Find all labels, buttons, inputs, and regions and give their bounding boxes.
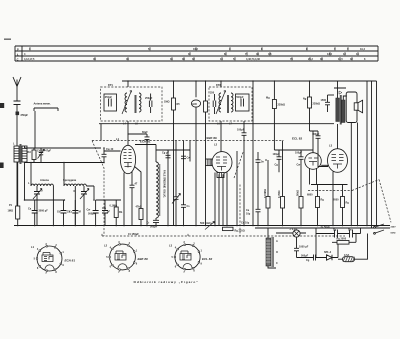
svg-text:Cg: Cg xyxy=(306,259,310,262)
capacitor C1 tuning gang xyxy=(33,186,42,226)
svg-text:7: 7 xyxy=(118,271,120,274)
resistor R6 xyxy=(204,81,208,226)
node row labels P L C xyxy=(17,47,19,61)
capacitor Cg1 xyxy=(162,152,171,158)
capacitor 1500 xyxy=(321,95,335,112)
filter FP2 xyxy=(209,83,252,121)
svg-text:Cs: Cs xyxy=(187,205,191,208)
speaker LS xyxy=(354,100,362,113)
capacitor Ca in antenna lead xyxy=(14,101,29,117)
node antena wewn. xyxy=(34,102,59,112)
capacitor 250pF FP1 left xyxy=(104,94,117,111)
svg-text:L3: L3 xyxy=(169,243,173,247)
wire bottom bus second xyxy=(255,227,390,229)
capacitor Cc xyxy=(69,200,81,226)
resistor Rb xyxy=(110,200,123,226)
wire chassis bottom bus xyxy=(14,225,390,227)
capacitor Cw xyxy=(87,200,99,226)
capacitor 250pF FP1 right xyxy=(145,94,153,114)
wire triode anode xyxy=(310,131,319,153)
svg-text:11,5: 11,5 xyxy=(338,58,343,61)
svg-text:Cn 10µ: Cn 10µ xyxy=(241,222,250,225)
scan mark top left xyxy=(4,39,11,40)
svg-text:Ct 150µF: Ct 150µF xyxy=(128,232,139,236)
potentiometer 500k volume xyxy=(200,221,215,229)
capacitor U1 grid xyxy=(102,148,121,163)
tube U1 ECH81 xyxy=(116,137,151,174)
svg-text:100pF: 100pF xyxy=(237,129,245,132)
resistor R5 1M xyxy=(164,81,180,226)
wire bottom-left node line xyxy=(25,199,122,201)
capacitor Ca2 xyxy=(28,200,48,226)
svg-text:Cd 50÷47pF: Cd 50÷47pF xyxy=(37,149,51,152)
svg-text:10µ: 10µ xyxy=(246,212,251,215)
svg-text:250: 250 xyxy=(210,92,215,95)
tube base L2 EBF89 xyxy=(104,241,148,274)
inductor FP1 secondary xyxy=(135,93,141,113)
dashed pot link vertical xyxy=(239,185,241,237)
svg-text:50kΩ: 50kΩ xyxy=(297,190,300,196)
svg-text:1MΩ: 1MΩ xyxy=(8,210,13,213)
capacitor 2x50uF pair xyxy=(316,226,361,238)
svg-text:9: 9 xyxy=(201,262,203,265)
tube bases xyxy=(31,241,212,284)
svg-text:SPŁ-2: SPŁ-2 xyxy=(324,251,332,254)
tube U3b ECL82 pentode xyxy=(328,144,348,173)
svg-text:Antena wewn.: Antena wewn. xyxy=(34,102,52,106)
capacitor 100pF coupling xyxy=(312,131,328,167)
inductor Lo oscillator coil xyxy=(135,145,190,219)
svg-text:Rb: Rb xyxy=(119,211,123,214)
svg-text:5n: 5n xyxy=(261,161,264,164)
svg-text:6: 6 xyxy=(175,266,177,269)
svg-text:220kΩ: 220kΩ xyxy=(313,103,321,106)
svg-text:Odbiornik radiowy „Figaro”: Odbiornik radiowy „Figaro” xyxy=(134,280,199,284)
svg-text:GłO: GłO xyxy=(192,103,197,106)
svg-text:500µF: 500µF xyxy=(301,255,309,258)
svg-text:6: 6 xyxy=(37,267,39,270)
scan mark left edge A xyxy=(0,103,4,108)
svg-text:FP2: FP2 xyxy=(216,83,221,87)
svg-text:8: 8 xyxy=(55,271,57,274)
svg-text:220V: 220V xyxy=(391,227,397,229)
svg-text:4,46,74,4,36: 4,46,74,4,36 xyxy=(246,58,261,61)
svg-text:Rd: Rd xyxy=(28,151,32,154)
svg-text:Gb: Gb xyxy=(57,211,61,214)
capacitor Cw3 xyxy=(181,156,190,159)
svg-text:5: 5 xyxy=(106,256,108,259)
wire L1 left up xyxy=(30,163,32,187)
svg-text:Cg: Cg xyxy=(333,229,337,232)
tube U3a ECL82 triode xyxy=(292,137,321,170)
svg-text:Cg: Cg xyxy=(275,164,279,167)
capacitor Cd trimmer xyxy=(37,148,51,163)
antenna xyxy=(13,77,21,87)
svg-text:7: 7 xyxy=(183,271,185,274)
svg-text:FALE ŚREDNIE I DŁUG.: FALE ŚREDNIE I DŁUG. xyxy=(163,170,166,198)
svg-text:Cc: Cc xyxy=(69,211,73,214)
svg-text:Rg: Rg xyxy=(346,202,350,205)
wire coil secondary bottom xyxy=(24,162,26,200)
wire screen bus xyxy=(99,124,334,141)
resistor R 6800 xyxy=(307,185,324,226)
wire U2 pins xyxy=(215,173,227,226)
dashed mains diagonal xyxy=(308,180,391,223)
wire coil primary down xyxy=(16,162,18,206)
wire L2 left up xyxy=(63,163,65,187)
svg-text:Ng: Ng xyxy=(303,98,307,101)
svg-text:P: P xyxy=(17,47,19,51)
capacitor Ck xyxy=(130,172,138,226)
transformer Tr output xyxy=(334,81,347,125)
svg-text:EBF 89: EBF 89 xyxy=(207,136,218,140)
svg-text:1MΩ: 1MΩ xyxy=(164,101,169,104)
svg-text:Rg 2000: Rg 2000 xyxy=(337,238,347,241)
fuse 0.5A xyxy=(338,254,361,262)
wire pentode anode up xyxy=(337,124,339,149)
capacitor 500pF FP2 xyxy=(236,94,250,111)
inductor FP2 secondary xyxy=(228,93,234,113)
wire antenna lead xyxy=(16,87,18,147)
svg-text:47: 47 xyxy=(135,183,138,186)
capacitor C5n xyxy=(246,152,264,226)
svg-text:500pF: 500pF xyxy=(236,96,244,99)
svg-text:P1: P1 xyxy=(9,204,13,207)
svg-text:L: L xyxy=(13,143,15,146)
svg-text:9: 9 xyxy=(136,263,138,266)
svg-text:250pF: 250pF xyxy=(21,113,29,117)
resistor Mg 220k xyxy=(266,81,285,150)
svg-text:M: M xyxy=(79,211,81,214)
wire B+ top bus xyxy=(122,80,377,82)
svg-text:O: O xyxy=(276,251,278,254)
capacitor C100b xyxy=(295,150,304,167)
wire internal antenna to coil xyxy=(34,111,36,148)
wire FP2 top drop xyxy=(220,81,222,87)
node row C markings xyxy=(24,57,366,61)
wire triode grid line xyxy=(274,149,313,151)
svg-text:1500: 1500 xyxy=(321,99,327,102)
svg-text:3000 µF: 3000 µF xyxy=(39,210,49,213)
wire detector column xyxy=(236,151,238,226)
svg-text:Sprzęgana: Sprzęgana xyxy=(63,178,77,182)
svg-text:FP1: FP1 xyxy=(108,83,113,87)
dashed gang line xyxy=(92,140,284,142)
svg-text:2: 2 xyxy=(129,242,131,245)
svg-text:1000 µF: 1000 µF xyxy=(299,246,309,249)
transformer T1 antenna coil xyxy=(13,143,27,165)
capacitor Cm xyxy=(102,200,110,226)
tube base L1 ECH81 xyxy=(31,243,75,275)
resistor Dl 1k xyxy=(332,238,356,245)
filter FP1 xyxy=(101,83,163,121)
svg-text:Ca: Ca xyxy=(28,208,32,211)
resistor Rg 220 xyxy=(223,227,245,232)
wire U2 top xyxy=(220,121,222,152)
wire mid column d xyxy=(189,141,191,162)
svg-text:ECL 82: ECL 82 xyxy=(202,257,212,261)
wire L1 right down xyxy=(52,186,54,226)
inductor L1 antenna tuning coil xyxy=(28,178,53,193)
wire screen column xyxy=(252,81,254,226)
svg-text:47kΩ: 47kΩ xyxy=(136,206,142,209)
svg-text:Cg µF: Cg µF xyxy=(162,152,169,155)
wire power links xyxy=(316,228,361,258)
capacitor FP2 input xyxy=(210,92,216,115)
svg-text:Rg 220Ω: Rg 220Ω xyxy=(235,230,245,233)
svg-text:L3: L3 xyxy=(329,144,333,148)
wire mid column c xyxy=(181,141,190,226)
wire right rail C xyxy=(376,81,378,226)
wire U1 cathode pins xyxy=(123,173,125,226)
wire U1 anode to FP1 xyxy=(127,121,129,145)
node row P markings xyxy=(29,47,365,51)
svg-text:2: 2 xyxy=(193,242,195,245)
dashed AVC diagonal xyxy=(234,151,244,178)
svg-text:5: 5 xyxy=(172,256,174,259)
tube base L3 ECL82 xyxy=(169,241,212,274)
svg-text:L2: L2 xyxy=(104,243,108,247)
svg-text:0,7MΩ: 0,7MΩ xyxy=(278,190,281,198)
svg-text:500pF: 500pF xyxy=(88,213,96,216)
wire output section rail xyxy=(357,123,359,226)
wire mid column a xyxy=(167,150,169,226)
node U2 lower box xyxy=(217,173,224,178)
capacitor Cg 1000uF xyxy=(294,237,323,262)
wire AVC dashed bus xyxy=(102,233,345,237)
resistor Rk xyxy=(135,167,144,226)
wire table ruled lines xyxy=(15,46,378,61)
resistor P1 xyxy=(8,162,20,226)
diode SPL rectifier xyxy=(323,251,339,260)
node junction dots xyxy=(17,80,368,226)
node U2 grid cap box xyxy=(206,159,212,166)
node GLO jack xyxy=(191,81,200,226)
wire bottom right drop xyxy=(361,234,368,260)
lamp Z1 dial xyxy=(276,228,306,237)
svg-text:6800: 6800 xyxy=(307,194,313,197)
scan mark left edge B xyxy=(0,163,4,169)
capacitor C2 tuning gang xyxy=(80,186,89,226)
svg-text:60µF: 60µF xyxy=(142,131,148,134)
capacitor 60uF xyxy=(142,131,150,226)
svg-text:220kΩ: 220kΩ xyxy=(278,104,286,107)
svg-text:19,4: 19,4 xyxy=(360,48,365,51)
wire coil secondary top xyxy=(25,146,102,148)
node speaker frame xyxy=(346,92,357,123)
power supply xyxy=(240,180,397,269)
wire L2 right down xyxy=(86,186,94,200)
svg-text:26,2: 26,2 xyxy=(308,58,313,61)
svg-text:L1: L1 xyxy=(31,245,35,249)
svg-text:EBF 89: EBF 89 xyxy=(138,257,149,261)
svg-text:4: 4 xyxy=(175,247,177,250)
svg-text:100µF: 100µF xyxy=(295,152,303,155)
svg-text:L2: L2 xyxy=(214,142,218,146)
svg-text:Mg: Mg xyxy=(266,97,270,100)
svg-text:Cw: Cw xyxy=(348,229,352,232)
transformer Tm mains autotransformer xyxy=(266,228,278,268)
switch S1 mains xyxy=(371,224,397,235)
svg-text:8: 8 xyxy=(193,270,195,273)
wire pentode cathode link xyxy=(321,164,328,166)
svg-text:ECH 81: ECH 81 xyxy=(65,258,76,262)
wire speaker return xyxy=(350,123,352,226)
svg-text:50Hz: 50Hz xyxy=(391,233,397,235)
svg-text:ECL 82: ECL 82 xyxy=(292,137,302,141)
svg-text:R5: R5 xyxy=(177,103,181,106)
inductor L2 coupling coil xyxy=(63,178,86,193)
wire cathode line xyxy=(311,184,348,186)
resistor Ng 220k xyxy=(303,81,320,131)
inductor FP1 primary xyxy=(122,91,132,115)
wire right rail A xyxy=(366,81,368,226)
inductor FP2 primary xyxy=(216,91,226,115)
resistor Rd xyxy=(28,148,37,163)
svg-text:4: 4 xyxy=(37,248,39,251)
svg-text:1: 1 xyxy=(201,250,203,253)
svg-text:6: 6 xyxy=(110,266,112,269)
capacitor C100a xyxy=(273,150,282,172)
resistor forest R 0.15M xyxy=(264,160,270,226)
svg-text:7: 7 xyxy=(45,272,47,275)
wire tuned line xyxy=(17,162,104,164)
svg-text:9: 9 xyxy=(62,264,64,267)
wire FP1 top drop xyxy=(127,81,129,87)
svg-text:Cw 40: Cw 40 xyxy=(106,148,114,151)
capacitor Cb xyxy=(57,200,71,226)
svg-text:2000: 2000 xyxy=(333,199,339,202)
svg-text:1: 1 xyxy=(136,249,138,252)
svg-text:250pF: 250pF xyxy=(105,96,113,99)
svg-text:C: C xyxy=(17,57,19,61)
resistor forest R 0.7M xyxy=(278,141,285,226)
svg-text:5: 5 xyxy=(34,258,36,261)
svg-text:L: L xyxy=(28,182,30,185)
tube U2 EBF89 xyxy=(207,136,233,173)
node coil subscripts xyxy=(123,123,233,126)
wire triode pins down xyxy=(310,168,317,184)
svg-text:Cw: Cw xyxy=(87,209,91,212)
svg-text:1: 1 xyxy=(62,251,64,254)
svg-text:2: 2 xyxy=(55,244,57,247)
capacitor Cr 500pF xyxy=(147,218,160,229)
wire pentode pins xyxy=(328,165,333,225)
svg-text:250pF: 250pF xyxy=(145,97,153,100)
scale table xyxy=(15,46,378,61)
svg-text:2x 50µF: 2x 50µF xyxy=(321,226,331,229)
svg-text:ECH 81: ECH 81 xyxy=(140,140,151,144)
wire right rail B xyxy=(371,81,373,228)
svg-text:0,1MΩ: 0,1MΩ xyxy=(110,204,118,207)
wire U1 top tap xyxy=(128,133,148,135)
svg-text:Cw: Cw xyxy=(297,164,301,167)
wire L2 tap down xyxy=(74,186,76,226)
svg-text:Ż 0,2A: Ż 0,2A xyxy=(290,228,298,231)
capacitor Cw2 100pF xyxy=(237,121,247,226)
svg-text:8: 8 xyxy=(129,270,131,273)
svg-text:µF: µF xyxy=(107,211,110,214)
wire mid column b with padder xyxy=(172,141,181,226)
svg-text:Rg: Rg xyxy=(321,199,325,202)
svg-text:C: C xyxy=(276,262,278,265)
svg-text:4,12,17,5: 4,12,17,5 xyxy=(24,58,35,61)
svg-text:Cr: Cr xyxy=(147,222,150,225)
dashed gang diagonal xyxy=(92,141,104,237)
svg-text:0,15MΩ: 0,15MΩ xyxy=(264,189,267,198)
svg-text:A: A xyxy=(276,240,278,243)
svg-text:Antena: Antena xyxy=(40,178,49,182)
node row L markings xyxy=(24,52,359,56)
resistor forest R 50k xyxy=(297,159,304,225)
resistor R 2000 xyxy=(333,185,349,226)
